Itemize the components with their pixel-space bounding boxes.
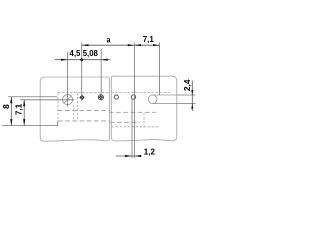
dashed vertical below screw xyxy=(73,105,75,121)
dimension a right arrow xyxy=(128,44,135,46)
svg-text:8: 8 xyxy=(1,104,11,109)
dashed hidden line bottom, right block xyxy=(112,126,159,128)
dimension 8 top arrow xyxy=(10,97,12,104)
side keyway slot circle xyxy=(148,95,157,104)
dimension 2,4 top arrow (outside, pointing down) xyxy=(191,90,193,95)
side keyway slot top line xyxy=(153,94,177,96)
extension line 8-top horizontal xyxy=(8,96,57,98)
extension line pin4 vertical long xyxy=(134,43,136,159)
dimension 8 line (left) xyxy=(10,97,12,126)
extension line front edge horizontal xyxy=(2,125,58,127)
svg-text:4,5: 4,5 xyxy=(69,49,81,58)
svg-text:5,08: 5,08 xyxy=(83,49,99,58)
extension line 7,1-left-top horizontal (through screw) xyxy=(20,99,74,101)
dashed hidden line mid, left block xyxy=(58,109,110,111)
dimension 7,1 top right arrow xyxy=(153,44,160,46)
dimension 4,5/5,08 line with tails xyxy=(55,59,110,61)
dashed hidden line top, right block xyxy=(111,92,170,94)
extension line pin4 left vertical xyxy=(131,99,133,158)
dimension 7,1 left line xyxy=(23,100,25,126)
dimension 1,2 line with tails (bottom) xyxy=(116,155,142,157)
screw slot diagonal xyxy=(64,96,72,104)
svg-text:2,4: 2,4 xyxy=(182,79,192,91)
pin hole 4 (circle) xyxy=(131,95,135,99)
dimension 4,5 left arrow (outside) xyxy=(61,59,68,61)
dimension 1,2 left arrow (outside) xyxy=(125,155,132,157)
svg-text:a: a xyxy=(106,35,111,45)
dashed hidden line mid, right block xyxy=(109,111,156,113)
extension line screw center vertical xyxy=(67,52,69,107)
dashed hidden line lower, right block xyxy=(110,121,140,123)
dashed vertical near slot, right block xyxy=(143,113,145,127)
extension line pin2 vertical xyxy=(100,49,102,101)
dimension 7,1 left top arrow xyxy=(23,100,25,107)
dimension a line xyxy=(82,44,134,46)
extension line pin1 vertical xyxy=(81,43,83,102)
left block housing outline xyxy=(40,77,109,141)
dimension 1,2 right arrow (outside) xyxy=(135,155,142,157)
pin hole 3 (circle) xyxy=(114,95,118,99)
dimension 7,1 top line xyxy=(135,44,160,46)
solder pin 2 (diamond with ring) xyxy=(98,95,103,100)
svg-text:1,2: 1,2 xyxy=(144,148,156,157)
screw head circle xyxy=(63,95,73,105)
extension line next-pitch vertical xyxy=(159,43,161,96)
extension line slot top horizontal xyxy=(177,94,196,96)
svg-text:7,1: 7,1 xyxy=(143,35,155,44)
dashed clamp box right edge xyxy=(77,93,79,121)
shared arrow point at pin1 xyxy=(80,58,84,62)
solder pin 1 (diamond) xyxy=(79,95,84,100)
right block housing outline xyxy=(111,76,177,141)
extension line slot bottom horizontal xyxy=(177,103,196,105)
dimension 8 bottom arrow xyxy=(10,119,12,126)
dashed hidden line top, left block xyxy=(58,92,110,94)
dimension a left arrow xyxy=(82,44,89,46)
dimension 5,08 right arrow (outside) xyxy=(101,59,108,61)
side keyway slot bottom line xyxy=(153,103,177,105)
dimension 2,4 line (right) xyxy=(191,81,193,112)
svg-text:7,1: 7,1 xyxy=(13,103,23,115)
dimension 2,4 bottom arrow (outside, pointing up) xyxy=(191,104,193,109)
dimension 7,1 left bottom arrow xyxy=(23,119,25,126)
jog connecting front extension to hidden line xyxy=(57,121,59,126)
dashed hidden line lower, left block xyxy=(58,120,110,122)
dimension 7,1 top left arrow xyxy=(135,44,142,46)
dashed clamp box left edge xyxy=(57,93,59,121)
